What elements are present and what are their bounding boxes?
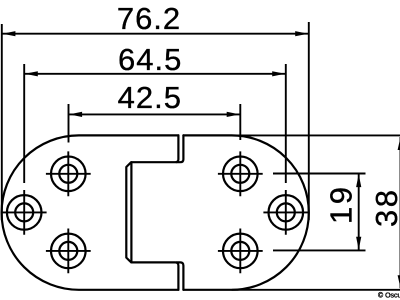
svg-text:64.5: 64.5 [118,42,182,77]
dimension 42.5 arrow left [69,112,82,117]
dimension 19 extension line bottom [273,249,366,251]
dimension 42.5 extension line right [239,104,241,140]
dimension 64.5 arrow left [25,71,38,76]
dimension 42.5 line [69,113,240,115]
svg-text:19: 19 [324,185,359,224]
hole TR crosshair [218,151,263,196]
hole BR crosshair [218,229,263,274]
dimension 76.2 line [2,33,308,35]
hole MR [269,195,304,230]
left leaf right edge with notch contour [126,135,178,289]
hole ML [7,195,42,230]
dimension 38 arrow bottom [398,275,400,288]
svg-text:© Osculati: © Osculati [378,292,400,300]
dimension 76.2 arrow left [2,31,15,36]
right leaf left edge bottom segment [177,262,184,289]
dimension 19 extension line top [273,173,366,175]
hole ML crosshair [2,190,47,235]
dimension 76.2 extension line left [1,24,3,220]
hole BL [51,234,86,269]
hole TL [51,157,86,192]
dimension 19 line [358,174,360,250]
right leaf outline (top edge + 38 top extension collinear, right semicircular end, bottom edge + 38 bottom extension collinear) [183,135,308,289]
svg-text:38: 38 [369,187,400,226]
38 bottom extension line [232,289,400,291]
dimension 19 arrow top [356,174,361,187]
38 top extension line [232,134,400,136]
dimension 64.5 extension line left [23,64,25,183]
dimension 64.5 arrow right [272,71,285,76]
dimension 76.2 extension line right [308,22,310,220]
right leaf left edge top segment [177,135,184,162]
left leaf outline (top edge, left semicircular end, bottom edge) [2,135,179,289]
hole TL crosshair [46,151,91,196]
dimension 38 arrow top [398,137,400,150]
dimension 64.5 line [25,73,285,75]
hole MR crosshair [263,190,308,235]
dimension 42.5 arrow right [227,112,240,117]
dimension 42.5 extension line left [68,104,70,143]
dimension 19 arrow bottom [356,237,361,250]
hole BR [223,234,258,269]
svg-text:42.5: 42.5 [118,80,182,115]
hole TR [223,157,258,192]
svg-text:76.2: 76.2 [117,1,181,36]
hole BL crosshair [46,229,91,274]
dimension 64.5 extension line right [285,64,287,183]
dimension 76.2 arrow right [295,31,308,36]
knuckle inner edge vertical [130,162,132,262]
